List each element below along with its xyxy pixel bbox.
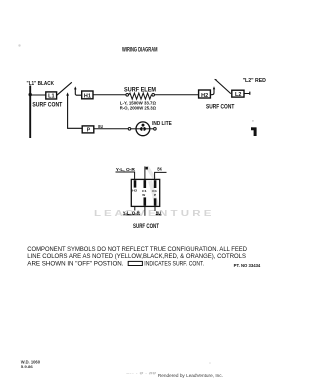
- svg-text:5.9.86: 5.9.86: [21, 364, 34, 369]
- svg-text:LINE COLORS ARE AS NOTED (YELL: LINE COLORS ARE AS NOTED (YELLOW,BLACK,R…: [27, 253, 246, 260]
- svg-text:INDICATES SURF. CONT.: INDICATES SURF. CONT.: [144, 260, 204, 267]
- svg-text:W: W: [142, 193, 145, 197]
- svg-text:Y-L, O-R: Y-L, O-R: [123, 210, 140, 216]
- svg-text:L-Y, 1500W 33.7Ω: L-Y, 1500W 33.7Ω: [120, 100, 157, 105]
- svg-text:H2: H2: [201, 93, 208, 99]
- svg-text:L1: L1: [48, 93, 55, 99]
- svg-text:WIRING DIAGRAM: WIRING DIAGRAM: [122, 47, 158, 54]
- svg-text:P: P: [154, 193, 156, 197]
- svg-text:H2: H2: [132, 189, 137, 193]
- svg-text:BU: BU: [156, 210, 161, 216]
- svg-text:SURF CONT: SURF CONT: [32, 102, 62, 108]
- svg-text:"L2" RED: "L2" RED: [243, 78, 266, 84]
- svg-text:IND LITE: IND LITE: [152, 121, 172, 127]
- svg-text:L E A D V E N T U R E: L E A D V E N T U R E: [94, 209, 212, 218]
- svg-text:BK: BK: [157, 167, 162, 172]
- svg-text:~·· · # · ##: ~·· · # · ##: [126, 372, 156, 376]
- svg-text:ARE SHOWN IN "OFF" POSTION.: ARE SHOWN IN "OFF" POSTION.: [27, 260, 124, 267]
- svg-text:Rendered by LeadVenture, Inc.: Rendered by LeadVenture, Inc.: [158, 373, 223, 378]
- svg-text:Y-L, O-R: Y-L, O-R: [116, 167, 136, 173]
- svg-text:R-O, 2000W 25.3Ω: R-O, 2000W 25.3Ω: [120, 106, 157, 111]
- svg-text:PT. NO 33434: PT. NO 33434: [234, 263, 261, 268]
- svg-text:L2: L2: [235, 92, 242, 98]
- svg-text:SURF CONT: SURF CONT: [133, 223, 159, 230]
- svg-text:SURF ELEM: SURF ELEM: [124, 88, 156, 94]
- svg-text:"L1" BLACK: "L1" BLACK: [27, 81, 55, 87]
- svg-text:COMPONENT SYMBOLS DO NOT REFLE: COMPONENT SYMBOLS DO NOT REFLECT TRUE CO…: [27, 246, 247, 253]
- svg-text:H1: H1: [84, 94, 91, 100]
- svg-text:SURF CONT: SURF CONT: [206, 105, 235, 111]
